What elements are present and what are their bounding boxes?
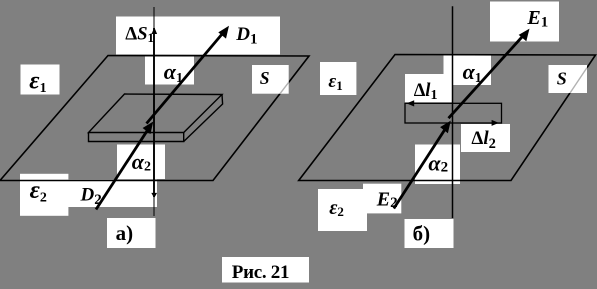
label box dl2 (461, 124, 510, 152)
label box alpha2 right (415, 145, 460, 185)
label box Ris.21 (222, 257, 309, 283)
label box alpha1 right (444, 56, 492, 86)
label box eps2 left (20, 174, 68, 216)
label box E2 right (363, 184, 401, 214)
label box DS1/D1 (top white box) (116, 17, 280, 55)
left arrowhead on top edge (407, 100, 415, 106)
vector D1 (147, 30, 226, 124)
pillbox slab (left) (89, 94, 223, 142)
svg-text:Рис. 21: Рис. 21 (232, 262, 289, 283)
label box dl1 (405, 74, 452, 102)
faint line across S box (280, 82, 289, 93)
plane S parallelogram (right) (299, 55, 596, 181)
arrowhead up (DeltaS1 vector) (152, 27, 158, 34)
label box eps2 right (318, 189, 367, 231)
label box S right (over lines) (549, 65, 588, 93)
label box alpha2 left (117, 145, 165, 180)
normal line (right vertical) (452, 6, 454, 218)
label box eps1 right (320, 62, 356, 95)
label box E1 (490, 2, 559, 42)
label box b) (405, 219, 454, 248)
vector E1 (449, 33, 527, 119)
label box S left (over lines) (252, 65, 289, 94)
svg-text:б): б) (413, 222, 431, 246)
faint line across right S box (570, 68, 587, 93)
normal line (left vertical) (153, 7, 155, 216)
plane S parallelogram (left) (0, 56, 309, 181)
right arrowhead on bottom edge (492, 120, 499, 126)
label box eps1 left (21, 65, 60, 95)
arrowhead down on normal (151, 193, 157, 198)
svg-text:S: S (260, 68, 270, 88)
label box D2 left (68, 180, 157, 208)
label box alpha1 left (145, 57, 194, 85)
vector D2 (96, 128, 149, 209)
contour rectangle (405, 103, 502, 123)
svg-text:S: S (557, 69, 567, 89)
vector E2 (394, 127, 447, 209)
label box a) (107, 218, 156, 248)
svg-text:а): а) (116, 221, 134, 245)
